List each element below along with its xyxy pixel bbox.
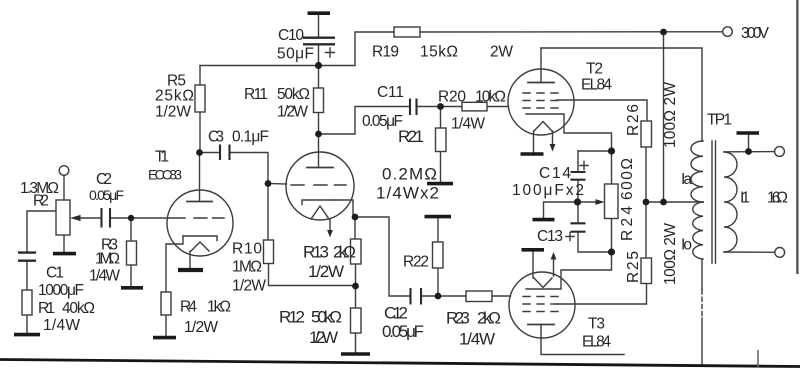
svg-text:C3: C3 — [208, 129, 224, 146]
svg-text:300V: 300V — [741, 25, 770, 42]
svg-text:16Ω: 16Ω — [767, 190, 788, 207]
svg-text:1/2W: 1/2W — [308, 262, 344, 281]
svg-text:1/4W: 1/4W — [459, 330, 495, 349]
svg-text:C13: C13 — [537, 228, 563, 245]
svg-text:R25: R25 — [625, 251, 642, 283]
svg-text:R11: R11 — [244, 86, 268, 103]
svg-text:50kΩ: 50kΩ — [277, 86, 310, 103]
svg-text:2kΩ: 2kΩ — [333, 243, 356, 262]
svg-text:0.05μF: 0.05μF — [89, 187, 124, 203]
svg-text:C1: C1 — [46, 265, 64, 282]
svg-text:T3: T3 — [588, 316, 605, 333]
svg-text:C14: C14 — [539, 165, 571, 182]
svg-text:1MΩ: 1MΩ — [95, 251, 120, 268]
svg-text:1/2W: 1/2W — [309, 328, 338, 347]
svg-text:1/2W: 1/2W — [155, 104, 191, 121]
svg-text:T1: T1 — [155, 149, 169, 166]
svg-text:C2: C2 — [96, 171, 112, 188]
svg-text:0.05μF: 0.05μF — [382, 322, 424, 341]
svg-text:2W: 2W — [490, 44, 513, 61]
svg-text:R26: R26 — [625, 104, 642, 136]
svg-text:0.1μF: 0.1μF — [232, 129, 269, 146]
svg-text:40kΩ: 40kΩ — [62, 300, 95, 317]
svg-text:1/4W: 1/4W — [43, 317, 80, 334]
svg-text:TP1: TP1 — [707, 112, 732, 129]
svg-text:2kΩ: 2kΩ — [477, 309, 501, 328]
svg-text:R13: R13 — [303, 243, 329, 262]
svg-text:100Ω 2W: 100Ω 2W — [662, 223, 679, 285]
svg-text:ECC83: ECC83 — [148, 167, 182, 183]
svg-text:EL84: EL84 — [582, 334, 611, 351]
svg-text:I1: I1 — [740, 190, 750, 207]
svg-text:R21: R21 — [398, 127, 424, 146]
svg-text:R23: R23 — [446, 309, 470, 328]
svg-text:15kΩ: 15kΩ — [420, 44, 458, 61]
svg-text:1MΩ: 1MΩ — [232, 259, 262, 276]
svg-text:10kΩ: 10kΩ — [475, 89, 506, 106]
svg-text:1/4W: 1/4W — [451, 116, 485, 133]
svg-text:C11: C11 — [377, 84, 404, 101]
svg-text:T2: T2 — [586, 61, 603, 78]
svg-text:R24: R24 — [619, 206, 636, 241]
svg-text:600Ω: 600Ω — [619, 158, 636, 200]
svg-text:1/2W: 1/2W — [232, 278, 266, 295]
svg-text:R20: R20 — [438, 89, 466, 106]
svg-text:R4: R4 — [180, 299, 197, 316]
svg-text:1/4Wx2: 1/4Wx2 — [376, 184, 439, 203]
svg-text:Io: Io — [681, 237, 692, 254]
svg-text:1/2W: 1/2W — [184, 319, 218, 336]
svg-text:1/2W: 1/2W — [277, 104, 308, 121]
svg-text:25kΩ: 25kΩ — [155, 88, 194, 105]
svg-text:R10: R10 — [232, 241, 262, 258]
svg-text:Ia: Ia — [681, 171, 692, 188]
svg-text:50μF: 50μF — [277, 46, 314, 63]
svg-text:C12: C12 — [384, 304, 408, 323]
svg-text:R19: R19 — [372, 44, 399, 61]
svg-text:R22: R22 — [403, 254, 429, 271]
svg-text:R2: R2 — [33, 193, 49, 210]
svg-text:1/4W: 1/4W — [89, 268, 120, 285]
svg-text:0.2MΩ: 0.2MΩ — [382, 165, 437, 184]
svg-text:EL84: EL84 — [581, 77, 612, 94]
svg-text:1kΩ: 1kΩ — [207, 299, 231, 316]
svg-text:50kΩ: 50kΩ — [311, 308, 342, 327]
svg-text:C10: C10 — [278, 27, 304, 44]
svg-text:1000μF: 1000μF — [38, 282, 84, 299]
svg-text:R1: R1 — [38, 300, 55, 317]
svg-text:100μFx2: 100μFx2 — [512, 182, 584, 199]
svg-text:100Ω 2W: 100Ω 2W — [662, 82, 679, 148]
svg-text:0.05μF: 0.05μF — [362, 113, 403, 130]
svg-text:R12: R12 — [279, 308, 305, 327]
